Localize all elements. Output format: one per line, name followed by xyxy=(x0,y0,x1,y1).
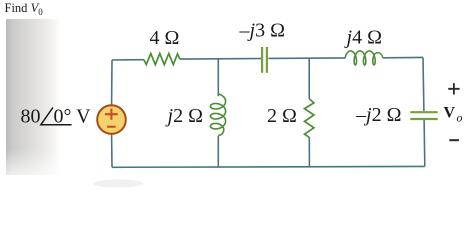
wire right bottom xyxy=(423,119,426,166)
svg-text:–j3 Ω: –j3 Ω xyxy=(239,20,285,42)
wire left lower xyxy=(111,135,113,168)
svg-text:2 Ω: 2 Ω xyxy=(267,105,297,127)
svg-text:j2 Ω: j2 Ω xyxy=(165,105,203,127)
wire branch node A top xyxy=(217,59,219,96)
resistor R1 4ohm xyxy=(144,54,180,65)
capacitor C2 -j2ohm plate top xyxy=(410,111,437,113)
svg-text:V: V xyxy=(444,105,456,122)
inductor L1 j2ohm xyxy=(210,94,225,136)
voltage source VS 80/_0 V xyxy=(97,105,126,134)
resistor R2 2ohm xyxy=(305,99,314,138)
svg-text:Find V0: Find V0 xyxy=(5,1,44,17)
label Vo plus xyxy=(448,83,459,94)
VS plus xyxy=(105,109,118,120)
wire branch node B top xyxy=(308,58,310,98)
wire right top xyxy=(422,57,425,111)
svg-text:–j2 Ω: –j2 Ω xyxy=(355,104,401,126)
scan smudge xyxy=(93,180,143,188)
capacitor C2 -j2ohm plate bottom xyxy=(410,118,437,120)
scan shadow strip xyxy=(6,19,61,175)
capacitor C1 -j3ohm plate right xyxy=(266,47,268,73)
label Vo minus xyxy=(449,139,459,141)
svg-text:o: o xyxy=(457,111,463,125)
wire bottom xyxy=(112,165,425,168)
svg-text:80: 80 xyxy=(21,106,41,128)
VS minus xyxy=(107,126,116,128)
wire left xyxy=(111,60,113,105)
capacitor C1 -j3ohm plate left xyxy=(261,47,263,73)
inductor L2 j4ohm xyxy=(345,51,383,65)
wire top xyxy=(112,57,423,60)
angle symbol xyxy=(41,108,72,125)
svg-text:4 Ω: 4 Ω xyxy=(150,27,180,49)
wire branch node B bottom xyxy=(308,137,310,166)
wire branch node A bottom xyxy=(217,136,219,167)
svg-text:j4 Ω: j4 Ω xyxy=(344,27,382,49)
